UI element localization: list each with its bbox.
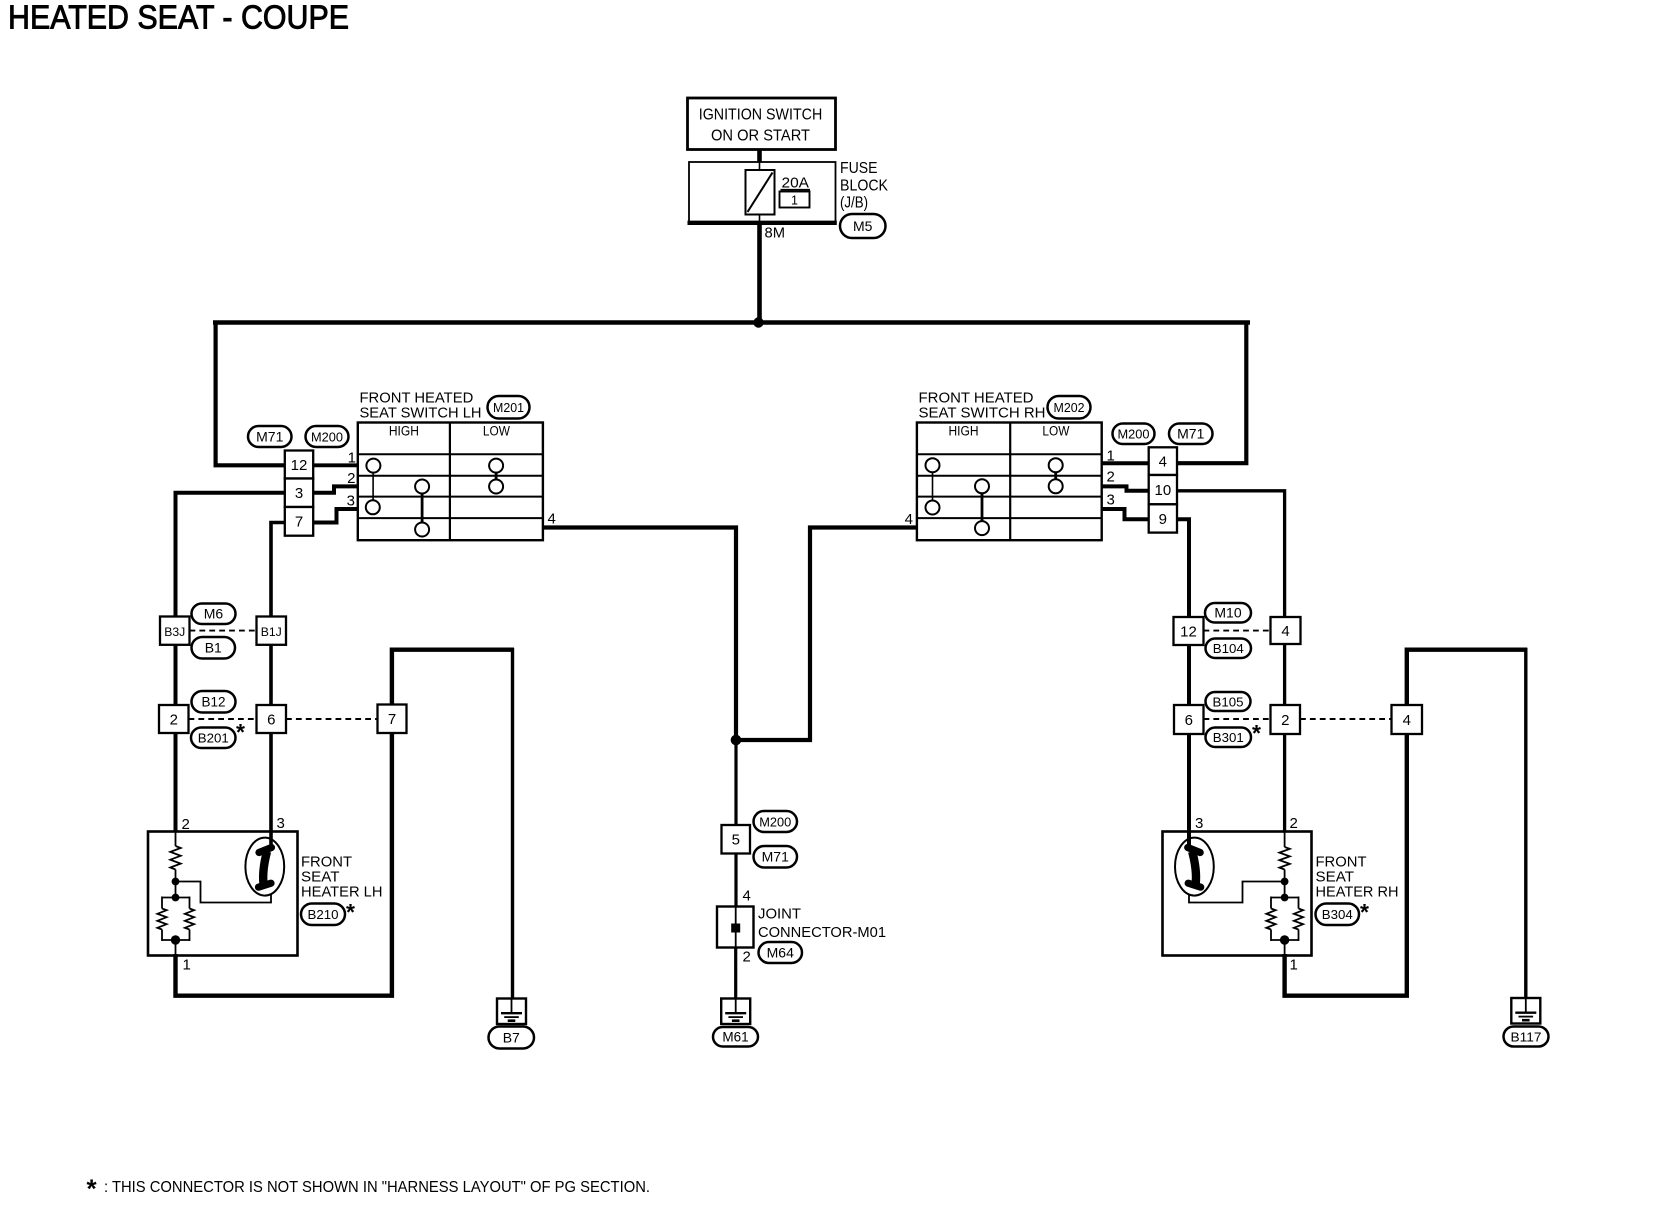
heater LH junction dot upper [172, 878, 180, 886]
wire M202 pin 9 chain down [1177, 519, 1189, 849]
switch RH contact high row2 [975, 479, 989, 493]
joint connector pin 4 label [743, 888, 751, 905]
dashed link B3J to B1J [190, 630, 257, 632]
wire M202 pin 10 chain down [1177, 491, 1285, 832]
front seat heater LH box [148, 832, 298, 956]
svg-text:3: 3 [1107, 492, 1115, 509]
wire heater LH pin 1 to connector B201 pin 7 [176, 733, 392, 996]
connector M71 oval left [248, 426, 292, 447]
heater RH pin1 inner lead [1284, 940, 1286, 956]
wire fuse block to bus (net 8M) [757, 222, 762, 323]
wire M201 pin 3 chain thin lead [175, 831, 177, 846]
heater RH element resistor [1279, 847, 1289, 899]
svg-text:3: 3 [347, 493, 355, 510]
heater LH thermostat bimetal [259, 848, 272, 888]
svg-text:JOINT: JOINT [758, 906, 801, 923]
svg-text:4: 4 [1159, 453, 1167, 470]
switch RH contact high row1 [926, 458, 940, 472]
svg-text:12: 12 [1180, 623, 1197, 640]
heater LH parallel resistor pair [157, 897, 194, 942]
svg-text:1: 1 [183, 957, 191, 974]
switch LH contact low row1 [489, 459, 503, 473]
svg-text:HEATER LH: HEATER LH [301, 884, 383, 901]
switch LH contact link low 1-2 [495, 470, 498, 482]
fuse F1 20A [746, 162, 775, 223]
svg-text:B7: B7 [503, 1029, 520, 1045]
svg-text:M71: M71 [762, 849, 789, 865]
ground M61 oval [713, 1027, 758, 1047]
switch LH contact high row4 [415, 523, 429, 537]
ground M61 symbol [721, 999, 750, 1025]
asterisk for B304 [1360, 899, 1369, 925]
svg-text:M71: M71 [256, 428, 283, 444]
connector column M71/M200 left pin 3 [285, 479, 313, 508]
dashed link 2 to 4 [1300, 718, 1392, 720]
switch LH pin 1 label [348, 450, 356, 467]
svg-text:B304: B304 [1322, 907, 1353, 922]
wire M201 pin 3 chain down-left [176, 493, 285, 832]
joint connector pin 2 label [743, 949, 751, 966]
connector M201 oval [488, 396, 530, 419]
connector column M200/M71 right pin 4 [1149, 447, 1177, 475]
switch RH contact link low 1-2 [1054, 470, 1057, 482]
wire M200 pin 5 to joint connector pin 4 [734, 853, 737, 908]
svg-text:B12: B12 [201, 695, 225, 710]
heater LH junction dot loop top [172, 894, 180, 902]
svg-text:2: 2 [170, 711, 178, 728]
svg-text:B104: B104 [1213, 641, 1244, 656]
svg-text:SEAT SWITCH LH: SEAT SWITCH LH [360, 404, 482, 421]
svg-text:6: 6 [1185, 712, 1193, 729]
svg-text:*: * [346, 899, 355, 925]
heater RH thermostat jumper [1189, 882, 1285, 903]
connector M6 oval [192, 604, 236, 625]
svg-text:BLOCK: BLOCK [840, 177, 889, 194]
switch LH contact high row3 [366, 500, 380, 514]
svg-text:HEATER RH: HEATER RH [1316, 884, 1399, 901]
ground B117 oval [1504, 1027, 1549, 1047]
svg-text:B1: B1 [205, 640, 222, 656]
svg-text:5: 5 [732, 832, 740, 849]
svg-text:6: 6 [267, 711, 275, 728]
connector M5 [840, 214, 886, 238]
ground B117 symbol [1511, 998, 1540, 1024]
svg-text:1: 1 [1107, 448, 1115, 465]
switch RH header LOW [1042, 424, 1069, 439]
svg-text:9: 9 [1159, 511, 1167, 528]
connector pin box 12 right [1174, 617, 1204, 645]
svg-text:4: 4 [1403, 712, 1411, 729]
wire bus right drop to pin 4 [1177, 321, 1246, 464]
heater RH junction dot loop top [1281, 894, 1289, 902]
svg-text:B117: B117 [1511, 1029, 1542, 1044]
label front seat heater RH [1316, 854, 1399, 901]
svg-text:M10: M10 [1214, 605, 1241, 621]
svg-text:LOW: LOW [1042, 424, 1069, 439]
connector B104 oval [1206, 639, 1252, 659]
svg-text:M202: M202 [1054, 400, 1085, 415]
svg-text:M71: M71 [1177, 426, 1204, 442]
connector pin box 7 left [378, 705, 407, 734]
heater RH parallel resistor pair [1266, 897, 1303, 942]
switch LH header LOW [483, 424, 510, 439]
heater RH pin 1 label [1290, 957, 1298, 974]
switch LH table [358, 423, 543, 541]
wire M201 pin 3 to switch LH pin 2 [313, 486, 358, 492]
svg-text:B3J: B3J [164, 625, 185, 639]
connector M71 oval center [754, 846, 798, 868]
switch RH pin 1 label [1107, 448, 1115, 465]
svg-text:12: 12 [291, 457, 308, 474]
ground B7 oval [489, 1027, 535, 1049]
wire M201 pin 7 to switch LH pin 3 [313, 509, 358, 523]
svg-text:2: 2 [1290, 815, 1298, 832]
switch LH pin 4 label [548, 511, 556, 528]
switch LH pin 3 label [347, 493, 355, 510]
heater RH pin 3 label [1195, 815, 1203, 832]
heater RH junction dot upper [1281, 878, 1289, 886]
wire center junction to joint connector pin 5 [734, 740, 737, 826]
svg-text:3: 3 [277, 815, 285, 832]
fuse block box (J/B) [688, 162, 837, 223]
connector pin box 2 left [159, 705, 189, 733]
wire switch RH pin 4 to center junction [738, 528, 917, 741]
switch RH contact high row4 [975, 521, 989, 535]
svg-text:M64: M64 [767, 944, 794, 960]
svg-text:2: 2 [182, 816, 190, 833]
connector M64 oval [759, 942, 803, 963]
svg-text:7: 7 [295, 514, 303, 531]
wire M201 pin 12 to switch LH pin 1 [313, 463, 358, 467]
svg-text:M200: M200 [759, 814, 791, 829]
connector pin box 4 right upper [1271, 617, 1301, 644]
connector M202 oval [1048, 396, 1091, 419]
connector B210 oval [301, 904, 345, 926]
connector B201 oval [191, 728, 236, 749]
connector B1J box [257, 617, 287, 645]
switch RH header HIGH [949, 424, 979, 439]
wire switch RH pin 2 to M202 pin 10 [1101, 486, 1148, 490]
svg-text:IGNITION SWITCH: IGNITION SWITCH [699, 107, 823, 124]
heater RH junction dot lower [1280, 935, 1289, 944]
fuse value label 20A [781, 175, 811, 192]
heater LH element resistor [170, 846, 180, 899]
connector M71 oval right [1169, 424, 1213, 445]
svg-text:1: 1 [791, 194, 798, 208]
label joint connector-M01 [758, 906, 886, 942]
svg-text:*: * [1360, 899, 1369, 925]
junction center node [731, 735, 742, 746]
svg-text:4: 4 [905, 511, 913, 528]
wire switch LH pin 4 to center junction [543, 528, 737, 741]
wire switch RH pin 1 to M202 pin 4 [1101, 461, 1148, 465]
svg-text:CONNECTOR-M01: CONNECTOR-M01 [758, 924, 886, 941]
connector B304 oval [1316, 904, 1360, 926]
junction bus / fuse feed [753, 317, 763, 327]
svg-text:HEATED SEAT - COUPE: HEATED SEAT - COUPE [8, 0, 349, 36]
heater LH pin 1 label [183, 957, 191, 974]
switch RH contact high row3 [926, 501, 940, 515]
connector column M71/M200 left pin 12 [285, 451, 313, 479]
asterisk for B201 [236, 719, 245, 745]
svg-text:4: 4 [1281, 623, 1289, 640]
fuse block label [840, 160, 889, 212]
fuse number box 1 [780, 192, 810, 208]
heater RH thermostat ellipse [1175, 838, 1214, 896]
label front heated seat switch RH [919, 389, 1046, 421]
switch RH pin 2 label [1107, 469, 1115, 486]
svg-text:2: 2 [1281, 712, 1289, 729]
switch LH pin 2 label [347, 470, 355, 487]
svg-text:B210: B210 [308, 907, 339, 922]
connector pin box 5 center [722, 825, 751, 854]
front seat heater RH box [1163, 832, 1312, 956]
wire heater RH pin 1 to connector B301 pin 4 [1285, 735, 1407, 996]
svg-text:B1J: B1J [261, 625, 282, 639]
switch RH pin 3 label [1107, 492, 1115, 509]
connector pin box 6 left [257, 705, 287, 733]
heater LH pin 3 label [277, 815, 285, 832]
wire switch RH pin 3 to M202 pin 9 [1101, 509, 1148, 519]
connector B1 oval [192, 637, 236, 659]
heater LH pin 2 label [182, 816, 190, 833]
joint connector M01 box [717, 907, 754, 948]
ground B7 symbol [497, 999, 526, 1025]
wire M202 pin 10 chain thin lead [1284, 831, 1286, 847]
heater RH thermostat bimetal [1188, 848, 1201, 888]
svg-text:: THIS CONNECTOR IS NOT SHOWN: : THIS CONNECTOR IS NOT SHOWN IN "HARNES… [104, 1179, 650, 1196]
connector pin box 4 right lower [1392, 705, 1423, 734]
svg-text:M200: M200 [1118, 427, 1150, 442]
switch LH contact link high 2-4 [421, 490, 424, 525]
switch RH contact link high 1-3 [932, 470, 934, 503]
wire main bus [213, 320, 1250, 325]
svg-text:4: 4 [743, 888, 751, 905]
connector M200 oval left [306, 426, 349, 447]
wire M201 pin 7 chain down [271, 523, 285, 850]
switch LH contact high row1 [366, 459, 380, 473]
connector B12 oval [192, 691, 236, 713]
wire connector B301 pin 4 to ground B117 [1407, 648, 1528, 999]
wire ignition switch to fuse block [757, 148, 762, 163]
switch LH contact link high 1-3 [372, 470, 374, 503]
heater LH thermostat ellipse [245, 838, 284, 896]
connector column M71/M200 left pin 7 [285, 507, 313, 536]
dashed link 6 to 2 [1204, 718, 1271, 720]
pin label 8M [765, 225, 786, 242]
connector M200 oval right [1113, 424, 1155, 445]
footnote asterisk [87, 1174, 98, 1204]
svg-text:*: * [236, 719, 245, 745]
svg-text:LOW: LOW [483, 424, 510, 439]
connector B105 oval [1206, 692, 1251, 711]
wire bus left drop to pin 12 [216, 321, 285, 466]
switch RH contact low row2 [1049, 479, 1063, 493]
dashed link 6 to 7 [286, 718, 378, 720]
dashed link 2 to 6 [189, 718, 257, 720]
connector B301 oval [1206, 728, 1252, 748]
switch RH contact link high 2-4 [981, 490, 984, 524]
svg-text:(J/B): (J/B) [840, 195, 868, 212]
switch RH pin 4 label [905, 511, 913, 528]
svg-text:FUSE: FUSE [840, 160, 878, 177]
svg-text:2: 2 [743, 949, 751, 966]
svg-text:SEAT SWITCH RH: SEAT SWITCH RH [919, 404, 1046, 421]
label front seat heater LH [301, 854, 383, 901]
svg-text:M5: M5 [853, 218, 873, 234]
connector column M200/M71 right pin 9 [1149, 504, 1177, 532]
svg-text:8M: 8M [765, 225, 786, 242]
dashed link 12 to 4 [1204, 630, 1271, 632]
heater LH thermostat jumper [176, 882, 272, 903]
svg-text:B105: B105 [1213, 694, 1244, 709]
svg-text:ON OR START: ON OR START [711, 128, 810, 145]
connector M10 oval [1205, 603, 1251, 623]
wire connector B201 pin 7 to ground B7 [392, 648, 514, 1000]
connector pin box 6 right [1174, 705, 1204, 734]
asterisk for B210 [346, 899, 355, 925]
switch LH contact high row2 [415, 480, 429, 494]
svg-text:HIGH: HIGH [949, 424, 979, 439]
switch RH table [917, 423, 1102, 541]
svg-text:M200: M200 [311, 429, 343, 444]
heater RH pin 2 label [1290, 815, 1298, 832]
diagram title [8, 0, 349, 36]
svg-text:M6: M6 [204, 606, 224, 622]
footnote text [104, 1179, 650, 1196]
svg-text:*: * [87, 1174, 98, 1204]
svg-text:*: * [1252, 720, 1261, 746]
svg-text:1: 1 [348, 450, 356, 467]
svg-text:3: 3 [295, 485, 303, 502]
label front heated seat switch LH [360, 389, 482, 421]
asterisk for B301 [1252, 720, 1261, 746]
svg-text:HIGH: HIGH [389, 424, 419, 439]
heater LH junction dot lower [171, 935, 180, 944]
svg-text:M61: M61 [722, 1030, 748, 1045]
svg-text:7: 7 [388, 711, 396, 728]
svg-text:B301: B301 [1213, 730, 1244, 745]
connector pin box 2 right [1271, 705, 1301, 734]
svg-text:2: 2 [1107, 469, 1115, 486]
svg-text:4: 4 [548, 511, 556, 528]
svg-text:M201: M201 [493, 400, 524, 415]
svg-text:3: 3 [1195, 815, 1203, 832]
svg-text:1: 1 [1290, 957, 1298, 974]
connector M200 oval center [754, 811, 798, 832]
switch LH header HIGH [389, 424, 419, 439]
svg-text:2: 2 [347, 470, 355, 487]
switch RH contact low row1 [1049, 458, 1063, 472]
connector B3J box [160, 617, 190, 645]
connector column M200/M71 right pin 10 [1149, 475, 1177, 504]
wire joint connector pin 2 to ground M61 [734, 947, 737, 1000]
switch LH contact low row2 [489, 480, 503, 494]
ignition switch power source box [688, 98, 836, 150]
heater LH pin1 inner lead [175, 940, 177, 956]
svg-text:B201: B201 [198, 731, 229, 746]
svg-text:10: 10 [1155, 482, 1172, 499]
